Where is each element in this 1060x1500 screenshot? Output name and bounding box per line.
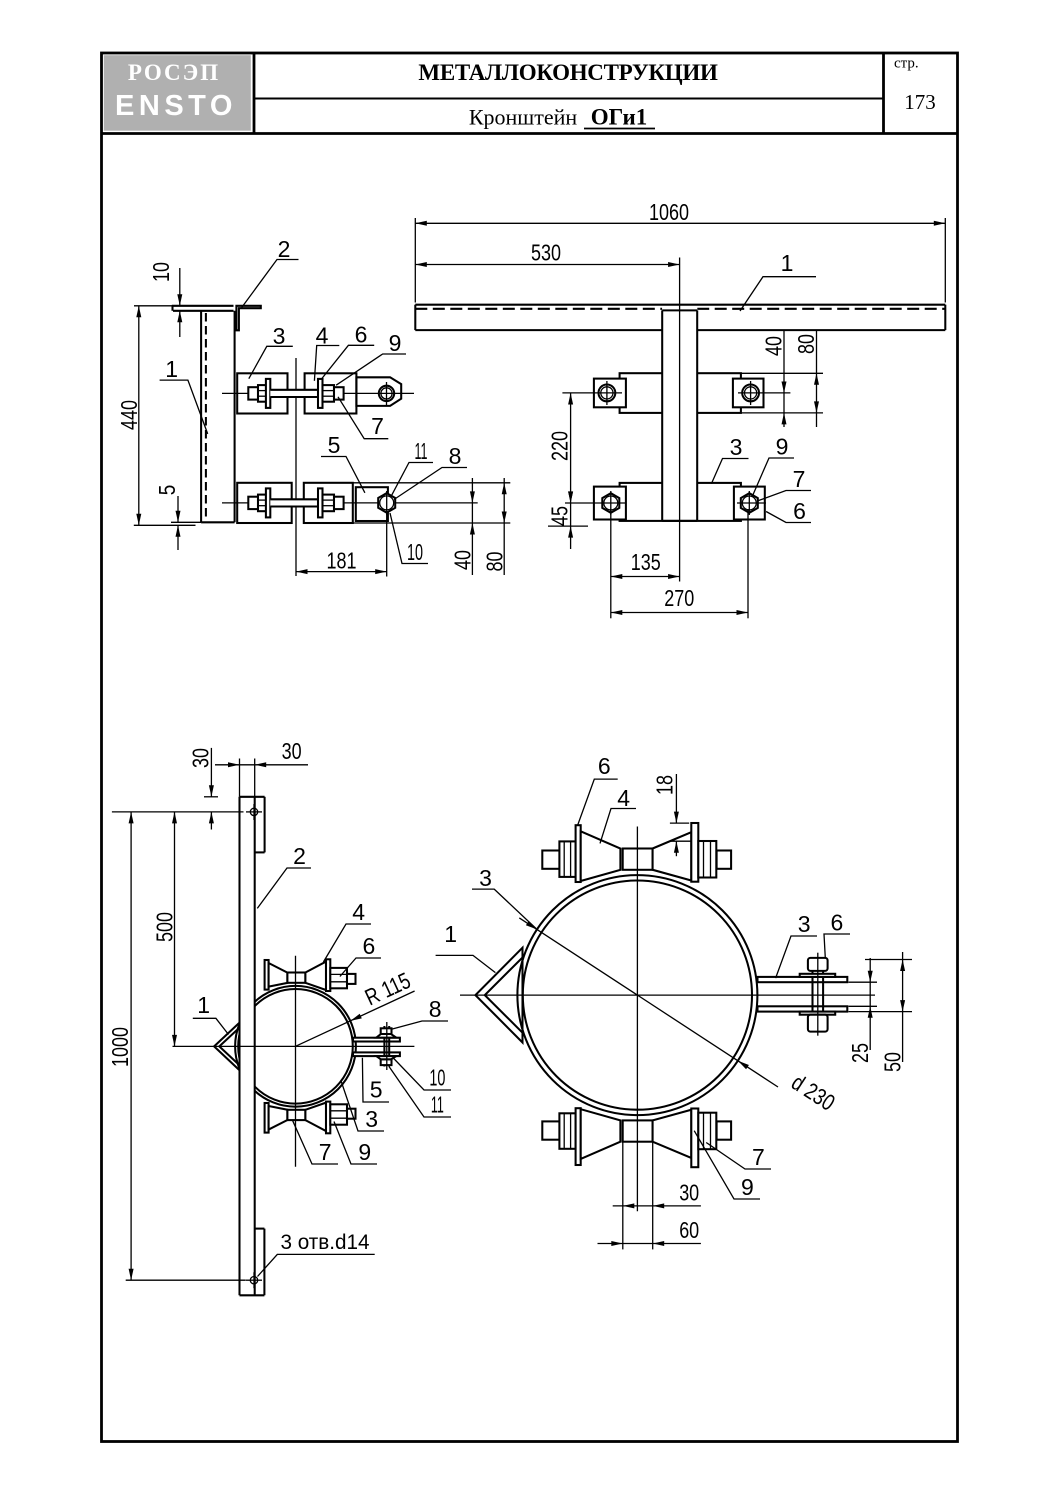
svg-text:5: 5: [328, 432, 341, 458]
svg-text:6: 6: [793, 498, 806, 524]
svg-text:7: 7: [793, 466, 806, 492]
svg-text:6: 6: [831, 910, 844, 936]
svg-text:1: 1: [197, 992, 210, 1018]
svg-text:7: 7: [371, 413, 384, 439]
svg-text:6: 6: [598, 753, 611, 779]
svg-text:4: 4: [316, 323, 329, 349]
svg-text:80: 80: [482, 552, 508, 572]
svg-text:220: 220: [547, 431, 573, 461]
svg-text:11: 11: [431, 1092, 444, 1118]
svg-text:2: 2: [293, 843, 306, 869]
svg-text:45: 45: [547, 506, 573, 526]
svg-text:9: 9: [741, 1174, 754, 1200]
svg-text:270: 270: [664, 585, 694, 611]
svg-text:40: 40: [761, 336, 787, 356]
svg-text:1000: 1000: [107, 1027, 133, 1067]
svg-text:3: 3: [365, 1106, 378, 1132]
svg-text:50: 50: [880, 1052, 906, 1072]
svg-text:6: 6: [363, 933, 376, 959]
svg-text:1060: 1060: [649, 199, 689, 225]
svg-text:80: 80: [793, 334, 819, 354]
svg-text:181: 181: [327, 548, 357, 574]
svg-text:2: 2: [278, 236, 291, 262]
svg-text:8: 8: [429, 996, 442, 1022]
svg-text:440: 440: [116, 400, 142, 430]
svg-text:60: 60: [679, 1217, 699, 1243]
svg-text:стр.: стр.: [894, 56, 919, 72]
svg-text:РОСЭП: РОСЭП: [128, 60, 220, 85]
svg-text:25: 25: [847, 1043, 873, 1063]
svg-text:8: 8: [449, 443, 462, 469]
svg-text:1: 1: [781, 250, 794, 276]
svg-text:ОГи1: ОГи1: [591, 105, 647, 130]
svg-text:9: 9: [358, 1139, 371, 1165]
svg-text:10: 10: [148, 262, 174, 282]
svg-text:1: 1: [444, 921, 457, 947]
svg-text:40: 40: [450, 550, 476, 570]
svg-text:135: 135: [631, 549, 661, 575]
svg-text:10: 10: [407, 539, 423, 565]
svg-text:530: 530: [531, 240, 561, 266]
svg-text:7: 7: [752, 1144, 765, 1170]
svg-text:9: 9: [389, 330, 402, 356]
svg-text:9: 9: [776, 434, 789, 460]
svg-text:11: 11: [415, 438, 428, 464]
svg-text:30: 30: [188, 748, 214, 768]
svg-text:500: 500: [152, 912, 178, 942]
svg-text:5: 5: [370, 1077, 383, 1103]
svg-text:5: 5: [154, 485, 180, 496]
svg-text:3 отв.d14: 3 отв.d14: [281, 1230, 370, 1254]
svg-text:6: 6: [355, 322, 368, 348]
svg-text:30: 30: [282, 738, 302, 764]
svg-text:3: 3: [479, 865, 492, 891]
svg-text:10: 10: [429, 1065, 445, 1091]
svg-text:3: 3: [730, 434, 743, 460]
svg-text:4: 4: [352, 899, 365, 925]
svg-text:18: 18: [652, 775, 678, 795]
svg-text:МЕТАЛЛОКОНСТРУКЦИИ: МЕТАЛЛОКОНСТРУКЦИИ: [418, 60, 718, 85]
svg-text:30: 30: [679, 1180, 699, 1206]
svg-text:7: 7: [319, 1139, 332, 1165]
svg-text:3: 3: [798, 911, 811, 937]
svg-text:1: 1: [165, 356, 178, 382]
svg-text:3: 3: [273, 323, 286, 349]
svg-text:ENSTO: ENSTO: [115, 90, 237, 122]
svg-text:4: 4: [617, 785, 630, 811]
svg-text:Кронштейн: Кронштейн: [469, 105, 578, 130]
svg-text:173: 173: [904, 90, 936, 114]
